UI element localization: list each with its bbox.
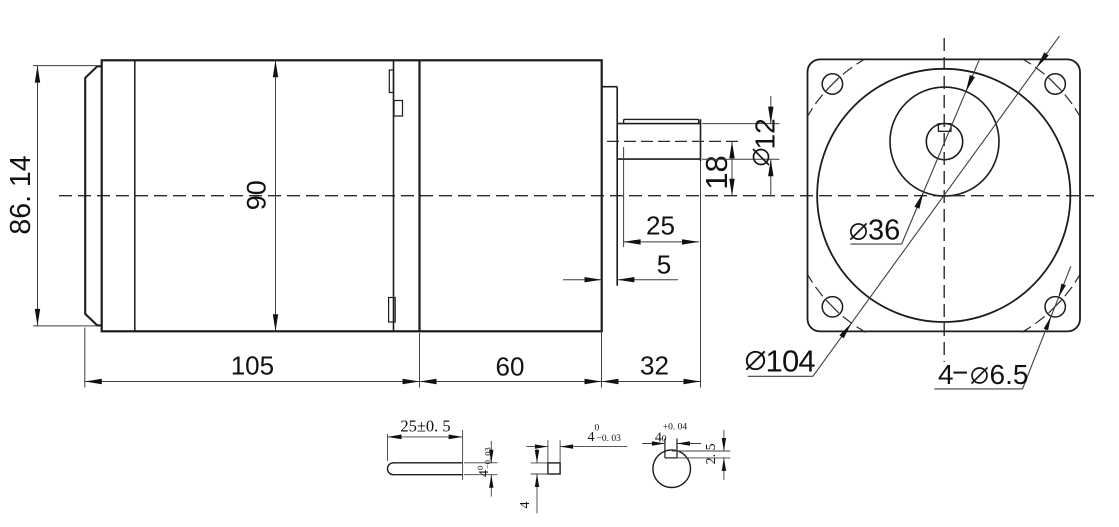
svg-text:18: 18	[699, 155, 734, 189]
svg-text:25±0. 5: 25±0. 5	[400, 417, 450, 436]
svg-text:−0. 03: −0. 03	[597, 434, 622, 444]
svg-text:4: 4	[518, 502, 533, 509]
detail dimension 4 +0.04 (keyway width)	[642, 422, 701, 445]
terminal tab upper-right	[394, 101, 403, 117]
svg-text:4: 4	[588, 430, 595, 445]
detail dimension 4 -0.03 (key width)	[526, 424, 627, 463]
dimension 60	[420, 352, 602, 385]
svg-text:5: 5	[657, 250, 671, 280]
boss circle dia36	[890, 87, 999, 196]
terminal tab upper-left	[389, 70, 393, 93]
svg-text:90: 90	[242, 180, 272, 210]
keyway slot front view	[938, 124, 951, 132]
svg-text:0: 0	[662, 434, 667, 444]
bolt circle dia104 dashed arcs	[807, 59, 1081, 333]
key on shaft	[624, 119, 699, 123]
dimension 5	[563, 250, 678, 283]
svg-text:4: 4	[477, 470, 492, 477]
front flange plate	[602, 87, 618, 286]
dimension 25	[624, 147, 699, 247]
svg-text:6.5: 6.5	[990, 359, 1029, 390]
svg-text:104: 104	[766, 344, 816, 379]
svg-text:32: 32	[640, 351, 669, 381]
detail dimension 25±0.5	[388, 417, 463, 481]
svg-text:12: 12	[750, 118, 781, 149]
mounting hole bottom-left dia6.5	[822, 297, 842, 317]
shaft circle dia12	[926, 123, 962, 159]
svg-text:105: 105	[231, 351, 274, 381]
gearbox face circle	[817, 69, 1070, 322]
svg-text:60: 60	[496, 352, 525, 382]
svg-text:−0. 03: −0. 03	[483, 447, 493, 469]
centerline main axis (side+front views)	[59, 195, 1094, 197]
detail key cross-section square	[548, 463, 560, 474]
dimension 105	[85, 351, 420, 385]
gearbox housing body	[102, 60, 602, 331]
detail key side view outline	[388, 463, 463, 475]
section boundary line left	[393, 60, 395, 331]
front flange square	[808, 59, 1081, 331]
front view vertical centerline	[943, 38, 945, 362]
svg-text:2. 5: 2. 5	[704, 443, 719, 464]
svg-text:36: 36	[868, 215, 900, 247]
gearbox front ring line	[134, 60, 136, 331]
rear end cap	[85, 66, 102, 325]
detail shaft cross-section circle	[653, 450, 691, 488]
dimension 86.14	[5, 66, 97, 326]
detail dimension 2.5 (keyway depth)	[672, 430, 730, 480]
svg-text:+0. 04: +0. 04	[663, 422, 688, 432]
dimension 18	[699, 141, 735, 195]
mounting hole top-right dia6.5	[1045, 74, 1065, 94]
detail dimension 4 h9 (key height, rotated)	[464, 441, 498, 497]
detail dimension 4 (key height left)	[518, 449, 549, 513]
extension lines bottom chain	[85, 161, 701, 388]
detail keyway slot	[665, 439, 677, 458]
leader and label dia104	[746, 36, 1059, 378]
svg-text:0: 0	[595, 424, 600, 434]
section boundary line right (motor joint)	[418, 60, 420, 331]
dimension 90	[242, 60, 279, 331]
svg-text:25: 25	[646, 211, 675, 241]
output shaft	[617, 119, 700, 161]
dimension diameter 12	[702, 96, 781, 196]
dimension 32	[602, 351, 701, 385]
svg-text:86. 14: 86. 14	[5, 155, 37, 234]
shaft centerline	[607, 140, 739, 142]
leader and label 4-dia6.5	[934, 266, 1071, 390]
mounting hole top-left dia6.5	[822, 74, 842, 94]
mounting hole bottom-right dia6.5	[1045, 297, 1065, 317]
leader and label dia36	[850, 58, 980, 246]
svg-text:−: −	[952, 357, 968, 388]
terminal tab lower	[389, 298, 396, 323]
